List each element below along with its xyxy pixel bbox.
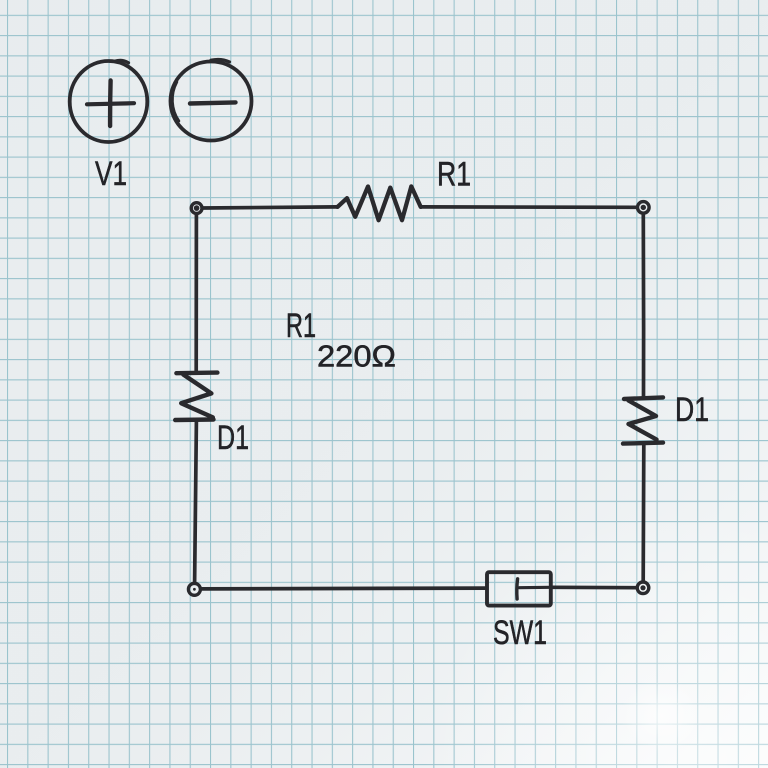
switch SW1 body xyxy=(487,572,551,605)
wire left lower xyxy=(195,422,197,584)
wire bottom (right segment) xyxy=(552,585,637,589)
svg-text:D1: D1 xyxy=(217,419,249,457)
node bottom-right xyxy=(637,582,649,594)
svg-text:R1: R1 xyxy=(286,307,316,345)
node top-left xyxy=(191,203,202,214)
svg-text:D1: D1 xyxy=(675,391,709,429)
diode D1 left (zigzag element) xyxy=(175,373,217,420)
plus sign xyxy=(87,81,134,127)
diode D1 right (zigzag element) xyxy=(623,397,663,443)
node top-right xyxy=(638,202,650,214)
wire right upper xyxy=(641,214,645,397)
wire top (right segment) xyxy=(421,205,637,209)
svg-text:220Ω: 220Ω xyxy=(317,339,396,374)
wire top (left segment) xyxy=(203,207,338,208)
minus sign xyxy=(190,102,236,103)
node bottom-left xyxy=(188,583,200,595)
wire bottom (left segment) xyxy=(201,586,487,591)
svg-text:R1: R1 xyxy=(437,156,471,194)
svg-text:V1: V1 xyxy=(95,155,127,193)
resistor R1 zigzag xyxy=(338,186,421,220)
wire right lower xyxy=(641,445,645,581)
wire left upper xyxy=(194,214,198,372)
battery positive terminal circle V1 xyxy=(70,60,148,142)
svg-text:SW1: SW1 xyxy=(493,614,547,652)
battery negative terminal circle xyxy=(171,59,252,140)
